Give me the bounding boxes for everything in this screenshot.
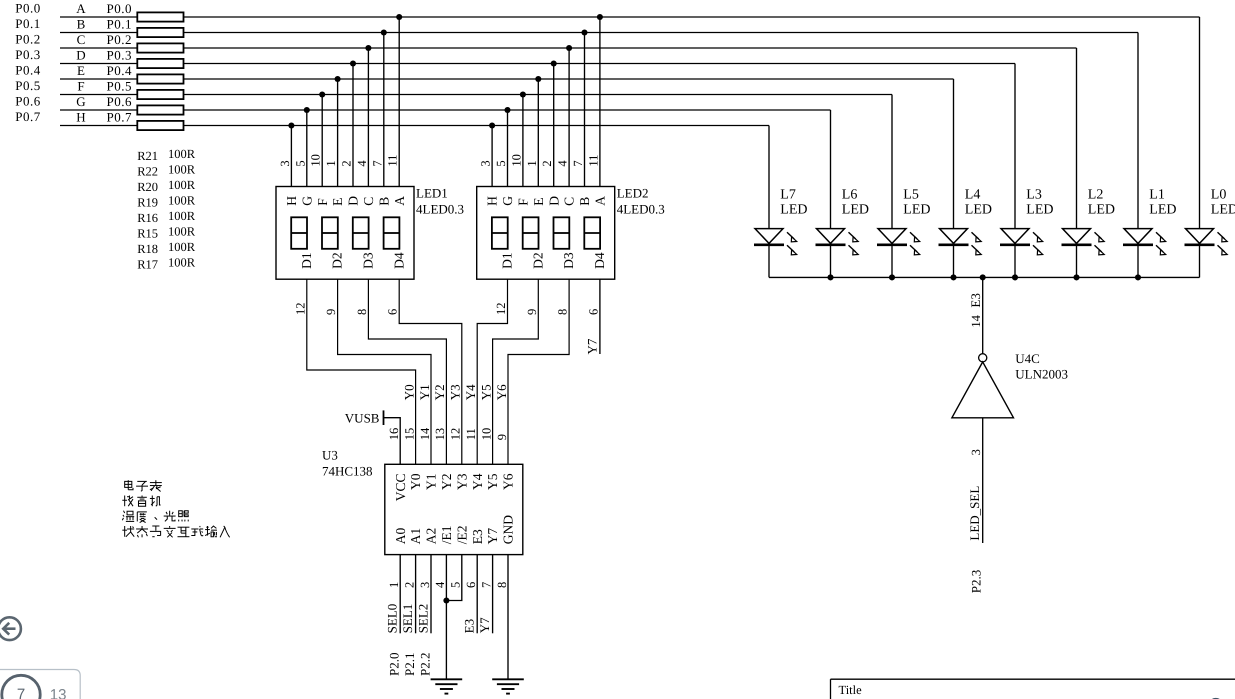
svg-text:100R: 100R (168, 240, 196, 254)
emission arrows L0 (1218, 232, 1225, 239)
svg-text:C: C (562, 197, 577, 206)
svg-text:15: 15 (402, 428, 416, 441)
svg-text:P0.1: P0.1 (15, 16, 40, 31)
svg-text:R21: R21 (137, 149, 158, 163)
svg-text:P0.3: P0.3 (15, 47, 40, 62)
junction row P0.1 to LED1 (381, 29, 387, 35)
wire row P0.3 down to L3 (1014, 64, 1016, 229)
svg-text:E: E (531, 198, 546, 206)
UI back button icon (0, 617, 21, 640)
annotation text line1 (125, 480, 162, 491)
wire LED1 pin 7 (B) to row P0.1 (383, 33, 385, 187)
svg-text:Y0: Y0 (401, 384, 416, 400)
svg-text:G: G (299, 196, 314, 206)
wire net P0.6 row (60, 109, 831, 111)
wire row P0.5 down to L5 (891, 95, 893, 229)
svg-text:A1: A1 (408, 528, 423, 545)
resistor R21 (137, 12, 183, 21)
svg-text:L5: L5 (903, 188, 919, 203)
wire LED2 pin 1 (E) to row P0.4 (537, 79, 539, 187)
svg-text:100R: 100R (168, 147, 196, 161)
svg-text:Y3: Y3 (448, 384, 463, 400)
power VUSB bar (383, 410, 385, 425)
svg-text:C: C (361, 197, 376, 206)
wire LED2 pin 2 (D) to row P0.3 (553, 64, 555, 187)
wire cathode bus to U4C output net E3 (982, 277, 984, 353)
wire L2 to cathode bus (1076, 246, 1078, 277)
wire net P0.4 row (60, 78, 954, 80)
svg-text:100R: 100R (168, 163, 196, 177)
LED2 digit 1 midline (492, 232, 508, 234)
svg-text:12: 12 (449, 428, 463, 441)
svg-text:E3: E3 (462, 619, 477, 633)
svg-text:13: 13 (433, 428, 447, 441)
LED1 digit 1 outline (291, 217, 307, 249)
diode symbol L6 (817, 229, 845, 244)
svg-text:100R: 100R (168, 225, 196, 239)
svg-text:4: 4 (355, 160, 369, 167)
junction row P0.7 to LED1 (288, 122, 294, 128)
diode symbol L0 (1186, 229, 1214, 244)
svg-text:14: 14 (418, 427, 432, 440)
svg-text:Y5: Y5 (485, 473, 500, 490)
wire LED1 pin 3 (H) to row P0.7 (290, 126, 292, 187)
svg-text:R16: R16 (137, 211, 158, 225)
svg-text:Y0: Y0 (408, 473, 423, 490)
svg-text:100R: 100R (168, 256, 196, 270)
svg-text:R18: R18 (137, 242, 158, 256)
wire U3 pin 3 net SEL2 (430, 555, 432, 634)
svg-text:12: 12 (494, 303, 508, 316)
LED2 digit 4 outline (584, 217, 600, 249)
svg-text:R15: R15 (137, 227, 158, 241)
emission arrows L3 (1033, 232, 1040, 239)
LED2 digit 2 outline (523, 217, 539, 249)
svg-text:H: H (76, 110, 85, 125)
svg-text:2: 2 (340, 160, 354, 166)
LED1 digit 4 outline (384, 217, 400, 249)
svg-text:Y7: Y7 (477, 617, 492, 633)
svg-text:4: 4 (556, 160, 570, 167)
title block (831, 678, 1235, 680)
junction row P0.2 to LED1 (365, 45, 371, 51)
wire row P0.7 down to L7 (768, 126, 770, 229)
svg-text:LED: LED (903, 203, 930, 218)
svg-text:13: 13 (50, 687, 67, 699)
svg-text:LED: LED (780, 203, 807, 218)
svg-text:A: A (392, 196, 407, 206)
svg-text:Y7: Y7 (485, 528, 500, 545)
cathode bar L5 (877, 244, 907, 247)
svg-text:Y4: Y4 (463, 384, 478, 400)
svg-text:3: 3 (479, 160, 493, 166)
wire net P0.3 row (60, 63, 1015, 65)
svg-text:L4: L4 (965, 188, 981, 203)
wire LED2 pin 7 (B) to row P0.1 (584, 33, 586, 187)
junction cathode bus (1012, 274, 1018, 280)
svg-text:1: 1 (387, 582, 401, 588)
junction row P0.4 to LED2 (535, 76, 541, 82)
resistor R19 (137, 59, 183, 68)
LED1 digit 1 midline (291, 232, 307, 234)
annotation text line4 (122, 526, 229, 537)
svg-text:74HC138: 74HC138 (322, 463, 373, 478)
svg-text:3: 3 (969, 449, 983, 455)
wire row P0.6 down to L6 (830, 110, 832, 228)
wire LED1 pin 11 (A) to row P0.0 (398, 17, 400, 187)
svg-text:D1: D1 (500, 252, 515, 268)
svg-text:6: 6 (586, 309, 600, 315)
wire U3 pin 8 to ground (507, 555, 509, 680)
resistor R17 (137, 121, 183, 130)
svg-text:Y2: Y2 (432, 384, 447, 400)
svg-text:10: 10 (309, 154, 323, 167)
wire U3 pin 1 net SEL0 (399, 555, 401, 634)
svg-text:Title: Title (839, 683, 863, 697)
svg-text:B: B (376, 197, 391, 206)
svg-text:D: D (346, 196, 361, 206)
wire LED1 pin 4 (C) to row P0.2 (367, 48, 369, 187)
svg-text:C: C (77, 32, 86, 47)
wire net P0.7 row (60, 125, 769, 127)
wire L7 to cathode bus (768, 246, 770, 277)
LED2 digit 1 outline (492, 217, 508, 249)
svg-text:A: A (593, 196, 608, 206)
junction row P0.6 to LED2 (504, 107, 510, 113)
annotation text line2 (122, 496, 160, 507)
svg-text:VUSB: VUSB (345, 410, 380, 425)
display LED1 4LED0.3 body (276, 187, 414, 280)
wire row P0.2 down to L2 (1076, 48, 1078, 228)
svg-text:LED: LED (1149, 203, 1176, 218)
svg-text:LED: LED (1211, 203, 1235, 218)
svg-text:3: 3 (278, 160, 292, 166)
LED1 digit 4 midline (384, 232, 400, 234)
svg-text:2: 2 (540, 160, 554, 166)
svg-text:SEL0: SEL0 (385, 604, 400, 634)
svg-text:8: 8 (556, 309, 570, 315)
svg-text:P0.3: P0.3 (107, 48, 132, 63)
UI page indicator panel (0, 670, 80, 699)
svg-text:L7: L7 (780, 188, 796, 203)
svg-text:L1: L1 (1149, 188, 1165, 203)
junction row P0.6 to LED1 (304, 107, 310, 113)
svg-text:4LED0.3: 4LED0.3 (416, 201, 464, 216)
svg-text:6: 6 (386, 309, 400, 315)
svg-text:10: 10 (509, 154, 523, 167)
resistor R16 (137, 74, 183, 83)
wire U3 VCC to VUSB (384, 418, 401, 465)
svg-text:6: 6 (464, 582, 478, 588)
ground at U3 /E1 /E2 (431, 678, 463, 680)
annotation text line3 (122, 511, 188, 523)
junction row P0.5 to LED2 (520, 91, 526, 97)
emission arrows L4 (972, 232, 979, 239)
svg-text:1: 1 (525, 160, 539, 166)
svg-text:P0.7: P0.7 (107, 110, 132, 125)
svg-text:3: 3 (418, 582, 432, 588)
svg-text:D4: D4 (592, 252, 607, 269)
svg-text:F: F (315, 198, 330, 206)
svg-text:11: 11 (586, 155, 600, 167)
wire L0 to cathode bus (1199, 246, 1201, 277)
svg-text:Y2: Y2 (439, 474, 454, 491)
wire LED2 pin 8 to U3 Y6 (508, 279, 569, 464)
svg-text:E3: E3 (470, 529, 485, 544)
wire LED1 pin 10 (F) to row P0.5 (321, 95, 323, 187)
wire L3 to cathode bus (1014, 246, 1016, 277)
svg-text:Y5: Y5 (478, 384, 493, 400)
svg-text:U3: U3 (322, 448, 338, 463)
wire net P0.0 row (60, 16, 1200, 18)
wire U4C input pin 3 net LED_SEL (982, 418, 984, 543)
LED2 digit 3 outline (554, 217, 570, 249)
svg-text:LED1: LED1 (416, 186, 448, 201)
svg-text:100R: 100R (168, 178, 196, 192)
svg-text:D: D (546, 196, 561, 206)
junction row P0.5 to LED1 (319, 91, 325, 97)
junction row P0.1 to LED2 (581, 29, 587, 35)
junction cathode bus (827, 274, 833, 280)
svg-text:U4C: U4C (1015, 351, 1040, 366)
wire net P0.5 row (60, 94, 892, 96)
svg-text:11: 11 (386, 155, 400, 167)
svg-text:P2.0: P2.0 (387, 653, 402, 676)
junction row P0.0 to LED1 (396, 14, 402, 20)
svg-text:R17: R17 (137, 258, 158, 272)
svg-text:E: E (77, 63, 85, 78)
wire LED2 pin 11 (A) to row P0.0 (599, 17, 601, 187)
svg-text:5: 5 (293, 160, 307, 166)
svg-text:LED2: LED2 (617, 186, 649, 201)
svg-text:H: H (284, 196, 299, 206)
svg-text:F: F (77, 79, 84, 94)
wire LED2 pin 5 (G) to row P0.6 (507, 110, 509, 187)
svg-text:P0.7: P0.7 (15, 109, 40, 124)
svg-text:D1: D1 (299, 252, 314, 269)
diode symbol L1 (1124, 229, 1152, 244)
svg-text:7: 7 (17, 686, 25, 699)
svg-text:Y6: Y6 (501, 473, 516, 490)
svg-text:P0.6: P0.6 (15, 94, 40, 109)
svg-text:P0.2: P0.2 (107, 32, 132, 47)
svg-text:8: 8 (355, 309, 369, 315)
cathode bar L1 (1123, 244, 1153, 247)
svg-text:8: 8 (495, 582, 509, 588)
junction row P0.4 to LED1 (335, 76, 341, 82)
wire L5 to cathode bus (891, 246, 893, 277)
svg-text:L6: L6 (842, 188, 858, 203)
svg-text:5: 5 (494, 160, 508, 166)
wire U3 pin 7 net Y7 (492, 555, 494, 634)
svg-text:14: 14 (969, 314, 983, 327)
wire LED1 pin 1 (E) to row P0.4 (337, 79, 339, 187)
junction cathode bus to E3 (980, 274, 986, 280)
wire L6 to cathode bus (830, 246, 832, 277)
resistor R20 (137, 43, 183, 52)
junction cathode bus (950, 274, 956, 280)
svg-text:B: B (77, 17, 86, 32)
junction cathode bus (1135, 274, 1141, 280)
svg-text:G: G (500, 196, 515, 206)
svg-text:Y1: Y1 (417, 384, 432, 400)
svg-text:100R: 100R (168, 209, 196, 223)
svg-text:12: 12 (293, 303, 307, 316)
diode symbol L4 (940, 229, 968, 244)
junction row P0.0 to LED2 (597, 14, 603, 20)
svg-text:D4: D4 (391, 252, 406, 269)
wire U3 pin 5 /E2 join pin 4 (446, 555, 461, 601)
svg-text:/E2: /E2 (454, 526, 469, 545)
svg-text:LED_SEL: LED_SEL (967, 486, 982, 541)
svg-text:P0.5: P0.5 (107, 79, 132, 94)
svg-text:P0.0: P0.0 (107, 1, 132, 16)
resistor R15 (137, 90, 183, 99)
emission arrows L5 (910, 232, 917, 239)
inverter U4C ULN2003 (979, 354, 987, 362)
LED1 digit 2 midline (322, 232, 338, 234)
svg-text:11: 11 (464, 428, 478, 440)
svg-text:GND: GND (501, 515, 516, 544)
resistor R18 (137, 105, 183, 114)
svg-text:D3: D3 (361, 252, 376, 269)
resistor R22 (137, 28, 183, 37)
UI current page circle 7 (2, 675, 40, 699)
svg-text:D2: D2 (530, 252, 545, 269)
svg-text:Y7: Y7 (584, 338, 599, 354)
svg-text:VCC: VCC (393, 474, 408, 502)
emission arrows L1 (1156, 232, 1163, 239)
svg-text:L2: L2 (1088, 188, 1104, 203)
svg-text:F: F (516, 198, 531, 206)
junction row P0.2 to LED2 (566, 45, 572, 51)
wire LED1 pin 5 (G) to row P0.6 (306, 110, 308, 187)
svg-text:7: 7 (571, 160, 585, 166)
wire LED2 pin 4 (C) to row P0.2 (568, 48, 570, 187)
UI bottom-right icon sliver (1208, 698, 1223, 699)
svg-text:E: E (330, 198, 345, 206)
svg-text:P2.2: P2.2 (418, 653, 433, 676)
svg-text:P2.1: P2.1 (402, 653, 417, 676)
svg-text:H: H (485, 196, 500, 206)
svg-text:L3: L3 (1026, 188, 1042, 203)
svg-text:P0.1: P0.1 (107, 17, 132, 32)
wire U3 pin 4 /E1 to ground (445, 555, 447, 680)
svg-text:9: 9 (495, 434, 509, 440)
wire row P0.0 down to L0 (1199, 17, 1201, 228)
LED2 digit 4 midline (584, 232, 600, 234)
svg-text:4: 4 (433, 581, 447, 588)
svg-text:10: 10 (479, 428, 493, 441)
emission arrows L6 (849, 232, 856, 239)
svg-text:P0.6: P0.6 (107, 94, 132, 109)
LED1 digit 3 midline (353, 232, 369, 234)
svg-text:P0.4: P0.4 (107, 63, 132, 78)
emission arrows L2 (1095, 232, 1102, 239)
diode symbol L3 (1001, 229, 1029, 244)
svg-text:P0.5: P0.5 (15, 78, 40, 93)
wire LED1 pin 6 to U3 Y3 (399, 279, 462, 464)
cathode bar L7 (754, 244, 784, 247)
wire LED2 pin 12 to U3 Y4 (477, 279, 507, 464)
svg-text:LED: LED (965, 203, 992, 218)
svg-text:R19: R19 (137, 196, 158, 210)
svg-text:D2: D2 (330, 252, 345, 269)
junction cathode bus (889, 274, 895, 280)
svg-text:Y4: Y4 (470, 473, 485, 490)
display LED2 4LED0.3 body (477, 187, 615, 280)
wire row P0.1 down to L1 (1137, 33, 1139, 229)
svg-text:P0.4: P0.4 (15, 63, 40, 78)
wire LED1 pin 8 to U3 Y2 (368, 279, 446, 464)
svg-text:7: 7 (479, 582, 493, 588)
junction row P0.3 to LED2 (551, 60, 557, 66)
LED2 digit 2 midline (523, 232, 539, 234)
svg-text:E3: E3 (968, 293, 983, 307)
ground at U3 GND (492, 678, 524, 680)
svg-text:/E1: /E1 (439, 526, 454, 545)
svg-text:LED: LED (842, 203, 869, 218)
wire LED2 pin 9 to U3 Y5 (493, 279, 539, 464)
wire row P0.4 down to L4 (953, 79, 955, 228)
svg-text:7: 7 (370, 160, 384, 166)
svg-text:G: G (76, 94, 85, 109)
junction row P0.3 to LED1 (350, 60, 356, 66)
wire LED2 pin 6 net Y7 stub (599, 279, 601, 354)
svg-text:ULN2003: ULN2003 (1015, 366, 1068, 381)
LED1 digit 2 outline (322, 217, 338, 249)
svg-text:Y3: Y3 (454, 473, 469, 490)
cathode bar L4 (939, 244, 969, 247)
svg-text:9: 9 (525, 309, 539, 315)
svg-text:16: 16 (387, 428, 401, 441)
wire LED1 pin 9 to U3 Y1 (338, 279, 431, 464)
svg-text:5: 5 (449, 582, 463, 588)
wire LED1 pin 2 (D) to row P0.3 (352, 64, 354, 187)
wire LED2 pin 3 (H) to row P0.7 (491, 126, 493, 187)
svg-text:L0: L0 (1211, 188, 1227, 203)
svg-text:1: 1 (324, 160, 338, 166)
svg-text:P0.2: P0.2 (15, 32, 40, 47)
emission arrows L7 (787, 232, 794, 239)
svg-text:D: D (76, 48, 85, 63)
wire U3 pin 6 net E3 (476, 555, 478, 634)
svg-text:9: 9 (324, 309, 338, 315)
svg-text:A: A (76, 1, 86, 16)
svg-text:P2.3: P2.3 (969, 570, 984, 593)
svg-text:A2: A2 (424, 528, 439, 545)
diode symbol L5 (878, 229, 906, 244)
svg-text:100R: 100R (168, 194, 196, 208)
junction /E1 /E2 (443, 597, 449, 603)
wire L4 to cathode bus (953, 246, 955, 277)
svg-text:D3: D3 (561, 252, 576, 269)
wire L1 to cathode bus (1137, 246, 1139, 277)
svg-text:B: B (577, 197, 592, 206)
svg-text:Y6: Y6 (494, 384, 509, 400)
svg-text:LED: LED (1026, 203, 1053, 218)
cathode bar L0 (1185, 244, 1215, 247)
cathode bar L2 (1062, 244, 1092, 247)
LED1 digit 3 outline (353, 217, 369, 249)
LED2 digit 3 midline (554, 232, 570, 234)
svg-text:LED: LED (1088, 203, 1115, 218)
wire LED cathode bus (769, 276, 1200, 278)
junction row P0.7 to LED2 (489, 122, 495, 128)
wire LED2 pin 10 (F) to row P0.5 (522, 95, 524, 187)
wire LED1 pin 12 to U3 Y0 (307, 279, 416, 464)
diode symbol L2 (1063, 229, 1091, 244)
